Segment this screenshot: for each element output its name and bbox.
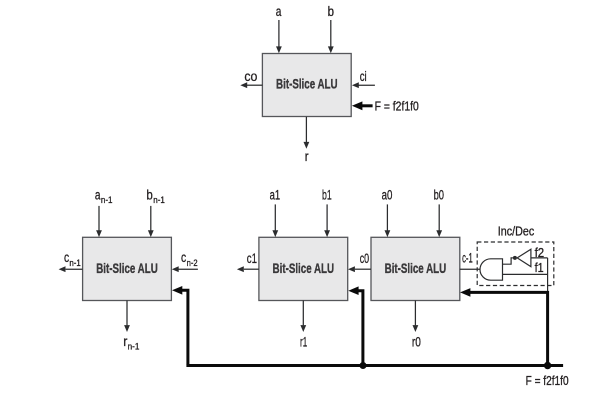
svg-text:F = f2f1f0: F = f2f1f0 <box>375 99 419 113</box>
svg-text:Bit-Slice ALU: Bit-Slice ALU <box>385 260 447 276</box>
svg-text:n-2: n-2 <box>187 258 198 268</box>
svg-text:a0: a0 <box>382 187 393 202</box>
svg-text:r1: r1 <box>300 334 307 349</box>
svg-text:r0: r0 <box>412 334 421 349</box>
svg-text:ci: ci <box>360 69 367 84</box>
svg-text:b: b <box>328 4 334 19</box>
svg-text:co: co <box>244 69 257 84</box>
svg-text:f2: f2 <box>535 246 545 260</box>
svg-text:Bit-Slice ALU: Bit-Slice ALU <box>276 76 338 92</box>
svg-text:F = f2f1f0: F = f2f1f0 <box>526 374 569 388</box>
svg-text:c-1: c-1 <box>462 250 473 265</box>
svg-text:n-1: n-1 <box>101 195 113 205</box>
svg-text:b0: b0 <box>434 187 444 202</box>
svg-text:r: r <box>305 149 309 164</box>
svg-text:b: b <box>146 187 152 202</box>
svg-text:a: a <box>276 4 282 19</box>
svg-text:c: c <box>181 250 186 265</box>
svg-text:a1: a1 <box>270 187 281 202</box>
svg-text:c0: c0 <box>360 251 369 266</box>
svg-text:f1: f1 <box>535 261 544 275</box>
svg-text:Bit-Slice ALU: Bit-Slice ALU <box>273 260 335 276</box>
svg-text:n-1: n-1 <box>153 195 165 205</box>
svg-text:c1: c1 <box>247 251 257 266</box>
svg-text:Bit-Slice ALU: Bit-Slice ALU <box>96 260 158 276</box>
svg-text:n-1: n-1 <box>128 342 140 352</box>
svg-text:n-1: n-1 <box>69 258 80 268</box>
svg-text:b1: b1 <box>322 187 332 202</box>
svg-text:Inc/Dec: Inc/Dec <box>498 224 534 238</box>
